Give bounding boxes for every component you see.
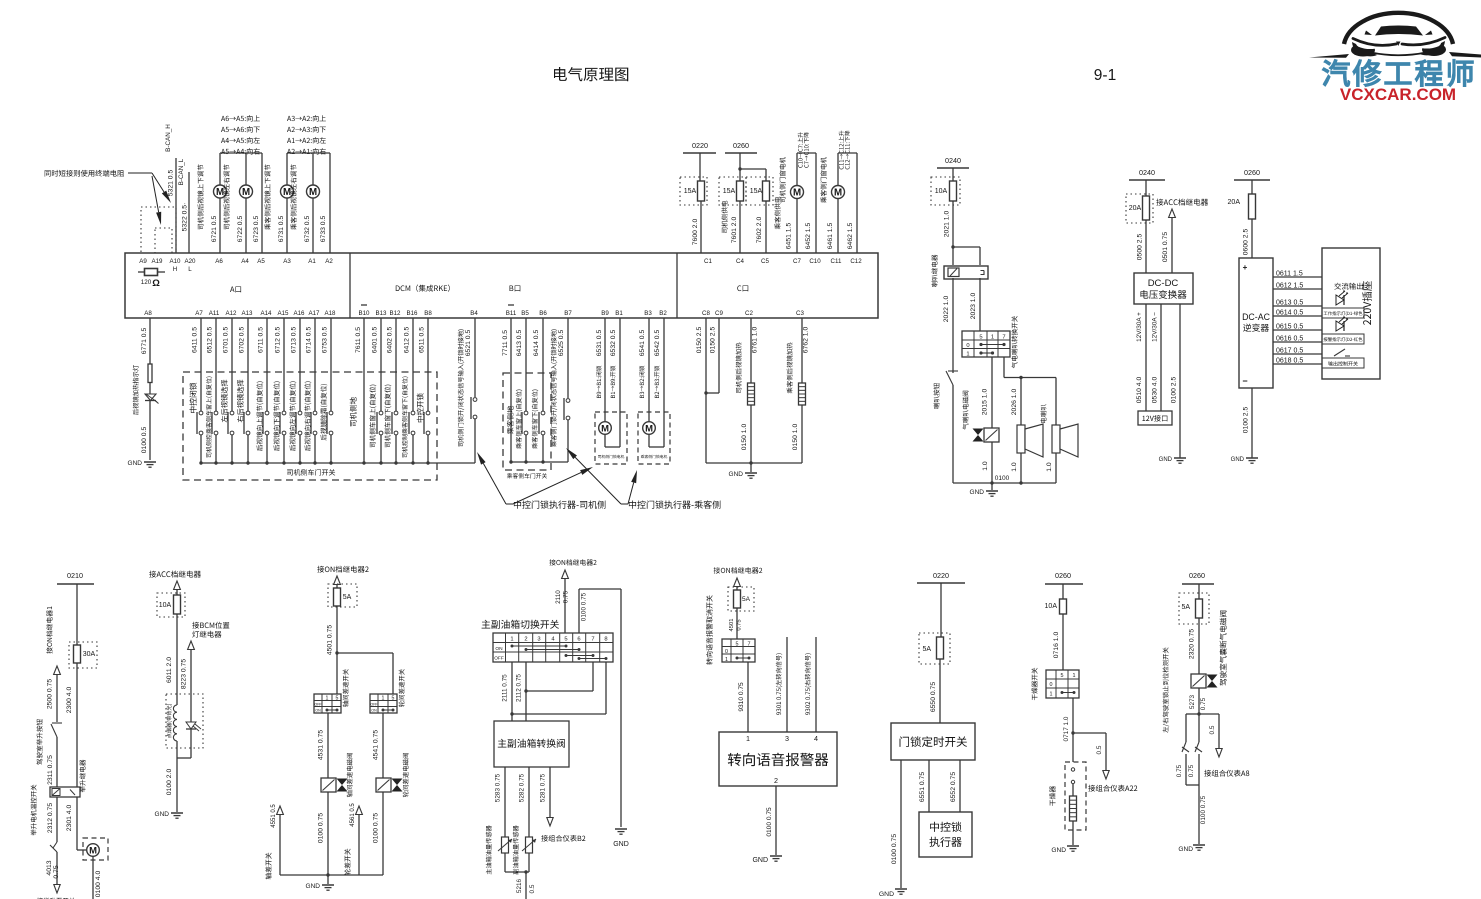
svg-text:2022 1.0: 2022 1.0	[943, 296, 950, 323]
svg-text:C2: C2	[745, 310, 753, 317]
wire 2023	[970, 278, 980, 331]
svg-text:A2: A2	[325, 258, 333, 265]
wire 0615	[1273, 324, 1322, 331]
solenoid 气喇叭电磁阀	[962, 391, 999, 442]
svg-text:6532 0.5: 6532 0.5	[610, 330, 617, 357]
wire below solenoid	[982, 442, 992, 483]
arrow to dotted box 2	[152, 176, 161, 225]
svg-text:GND: GND	[1231, 457, 1245, 463]
svg-text:A15: A15	[277, 310, 289, 317]
svg-text:B4: B4	[470, 310, 478, 317]
section label A口	[230, 286, 241, 292]
ground horn	[970, 489, 998, 496]
svg-text:GND: GND	[155, 811, 170, 818]
ground dcac	[1231, 457, 1258, 463]
svg-text:A6: A6	[215, 258, 223, 265]
svg-text:DC-DC: DC-DC	[1148, 278, 1179, 289]
wire 0150 below driver heater	[741, 405, 751, 463]
wire 6521 door-lock status driver	[458, 318, 477, 463]
wire 4013 to switch	[37, 860, 75, 899]
svg-text:7602 2.0: 7602 2.0	[756, 217, 763, 244]
svg-text:6753 0.5: 6753 0.5	[322, 327, 329, 354]
svg-text:6401 0.5: 6401 0.5	[372, 327, 379, 354]
wire 2111	[502, 662, 514, 721]
fuse 10A lamp	[157, 593, 185, 617]
svg-text:6761 1.0: 6761 1.0	[752, 327, 759, 354]
wire 2022	[943, 278, 953, 370]
svg-text:6451 1.5: 6451 1.5	[786, 223, 793, 250]
svg-text:GND: GND	[879, 891, 894, 898]
wire 6011	[166, 614, 177, 705]
svg-text:1.0: 1.0	[1046, 462, 1053, 472]
aux tank fuel sensor	[513, 825, 536, 874]
svg-text:0: 0	[725, 649, 728, 655]
svg-text:A19: A19	[151, 258, 163, 265]
svg-text:5322 0.5·: 5322 0.5·	[182, 203, 189, 232]
svg-text:6462 1.5: 6462 1.5	[847, 223, 854, 250]
svg-text:0.5: 0.5	[1096, 745, 1103, 754]
svg-text:C9: C9	[715, 310, 723, 317]
wire 0100 dcdc	[1171, 304, 1181, 458]
wire 6512	[206, 318, 218, 465]
svg-text:A3: A3	[283, 258, 291, 265]
svg-text:6714 0.5: 6714 0.5	[306, 327, 313, 354]
LED D2 red	[1322, 317, 1364, 344]
wire 6723	[253, 153, 262, 253]
svg-text:7601 2.0: 7601 2.0	[731, 217, 738, 244]
fuse 15A (0220)	[680, 177, 707, 205]
lift relay 举升继电器	[50, 760, 86, 797]
wire 0150 C9	[704, 318, 719, 395]
solenoid 轮间差速电磁阀	[376, 753, 409, 797]
fuse 5A lock timer	[919, 633, 950, 664]
svg-text:B2: B2	[659, 310, 667, 317]
section label DCM (集成RKE)	[396, 285, 450, 292]
svg-text:1.0: 1.0	[1011, 462, 1018, 472]
svg-text:7611 0.5: 7611 0.5	[355, 327, 362, 353]
note 中控门锁执行器-司机侧	[506, 500, 605, 508]
svg-text:0717 1.0: 0717 1.0	[1063, 716, 1070, 741]
driver mirror motor bracket	[220, 152, 262, 154]
wire 4551 轴差开关	[265, 804, 283, 880]
note 接ON档继电器2 (alarm)	[714, 567, 763, 573]
wire 7611 司机侧地	[350, 318, 366, 465]
svg-text:OFF: OFF	[314, 703, 322, 707]
svg-text:0.75: 0.75	[1176, 764, 1183, 777]
wire 6413	[516, 318, 528, 464]
svg-text:B16: B16	[406, 310, 418, 317]
svg-text:ON: ON	[371, 709, 377, 713]
bus 0260	[725, 141, 766, 181]
motor central lock passenger	[643, 422, 664, 447]
fuse 10A horn	[931, 177, 960, 205]
svg-text:A14: A14	[260, 310, 272, 317]
bus 0210	[57, 571, 94, 645]
svg-text:0612 1.5: 0612 1.5	[1276, 283, 1303, 290]
motor central lock driver	[599, 422, 620, 447]
wire 5273	[1189, 688, 1207, 716]
wire 0100 under wheel solenoid	[373, 792, 384, 875]
svg-text:20A: 20A	[1228, 199, 1241, 206]
fuse 5A alarm	[728, 578, 754, 611]
svg-text:ON: ON	[315, 709, 321, 713]
svg-text:6402 0.5: 6402 0.5	[387, 327, 394, 354]
wire 6411	[189, 318, 203, 465]
wire 4531	[318, 713, 329, 778]
lift motor dashed box	[83, 838, 108, 860]
wire 2112	[516, 662, 528, 721]
alarm cancel switch box	[722, 639, 755, 663]
logo VCXCAR car emblem	[1309, 13, 1481, 58]
wire 6761 mirror heater driver	[736, 318, 759, 393]
fuse 15A (7601)	[719, 177, 746, 205]
svg-text:A20: A20	[184, 258, 196, 265]
svg-text:5A: 5A	[1181, 604, 1190, 611]
dryer switch box 干燥器开关	[1031, 668, 1079, 700]
wire 6402	[384, 318, 398, 465]
dryer dashed box 干燥器	[1049, 762, 1086, 830]
svg-text:6712 0.5: 6712 0.5	[275, 327, 282, 354]
svg-text:8223 0.75: 8223 0.75	[181, 659, 188, 689]
svg-text:B5: B5	[521, 310, 529, 317]
bus 0220 lock timer	[917, 571, 965, 637]
driver lock motor dashed box	[595, 412, 627, 464]
svg-text:A17: A17	[308, 310, 320, 317]
heater driver mirror	[748, 383, 755, 405]
svg-text:6011 2.0: 6011 2.0	[166, 657, 173, 683]
svg-text:M: M	[793, 188, 801, 199]
svg-text:4531 0.75: 4531 0.75	[318, 730, 325, 760]
wire 6542	[654, 318, 664, 447]
wire 6551	[919, 760, 929, 812]
svg-text:15A: 15A	[750, 188, 763, 195]
svg-text:GND: GND	[1051, 847, 1066, 854]
svg-text:VCXCAR.COM: VCXCAR.COM	[1340, 85, 1456, 104]
svg-text:1: 1	[326, 696, 329, 702]
fuse 20A dcac	[1228, 194, 1256, 219]
DCM module box	[125, 253, 878, 318]
svg-text:0100 0.75: 0100 0.75	[373, 813, 380, 843]
lighter heating coil	[173, 705, 177, 758]
wire 6771	[133, 318, 150, 415]
svg-text:6771 0.5: 6771 0.5	[141, 328, 148, 355]
wire 6531	[596, 318, 605, 421]
cab lift button 驾驶室举升按钮	[36, 719, 62, 787]
fuel changeover valve 主副油箱转换阀	[494, 721, 569, 767]
wire 0.5 to cluster A22	[1073, 733, 1137, 792]
svg-text:2301 4.0: 2301 4.0	[66, 805, 73, 832]
cancel switch label 转向语音报警取消开关	[706, 595, 713, 664]
door lock timing switch box 门锁定时开关	[891, 723, 975, 760]
svg-text:1: 1	[510, 637, 513, 643]
note mirror directions A6/A5	[221, 115, 260, 154]
svg-text:5: 5	[564, 637, 567, 643]
wire 6732	[290, 153, 313, 253]
220V outlet box 220V插座	[1322, 248, 1380, 379]
svg-text:2: 2	[524, 637, 527, 643]
svg-text:6732 0.5: 6732 0.5	[304, 216, 311, 243]
svg-text:7711 0.5: 7711 0.5	[502, 330, 509, 356]
wire 6762 mirror heater passenger	[787, 318, 810, 393]
svg-text:A8: A8	[144, 310, 152, 317]
svg-text:2023 1.0: 2023 1.0	[970, 293, 977, 320]
svg-text:0.5: 0.5	[529, 884, 536, 893]
wire 0617	[1273, 348, 1322, 355]
note 接ACC档继电器 (lamp)	[149, 571, 201, 578]
svg-text:B11: B11	[506, 310, 517, 317]
wire 6525 door-lock status passenger	[551, 318, 570, 462]
svg-text:1: 1	[725, 657, 728, 663]
svg-text:15A: 15A	[723, 188, 736, 195]
svg-text:B1: B1	[615, 310, 623, 317]
svg-text:GND: GND	[1159, 457, 1173, 463]
lock detect switches 左/右驾驶室锁止到位检测开关	[1163, 647, 1202, 785]
svg-text:6733 0.5: 6733 0.5	[320, 216, 327, 243]
wire 0618	[1273, 358, 1322, 365]
svg-text:6461 1.5: 6461 1.5	[827, 223, 834, 250]
main tank fuel sensor	[486, 825, 512, 874]
svg-text:0616 0.5: 0616 0.5	[1276, 336, 1303, 343]
svg-text:B7: B7	[564, 310, 572, 317]
svg-text:9-1: 9-1	[1094, 67, 1116, 84]
svg-text:5: 5	[392, 696, 395, 702]
svg-text:5: 5	[1061, 673, 1064, 679]
wire 0100 0.5	[141, 427, 148, 454]
svg-text:0100 4.0: 0100 4.0	[95, 871, 102, 898]
svg-text:M: M	[309, 187, 317, 198]
wire 0100 fuel top	[579, 589, 621, 827]
logo text 汽修工程师	[1323, 60, 1474, 87]
svg-text:0: 0	[966, 343, 969, 349]
bus 0260 dryer	[1045, 571, 1083, 599]
LED D1 green	[1322, 291, 1364, 318]
svg-text:3: 3	[537, 637, 540, 643]
wire 0100 4.0 lift	[95, 871, 102, 898]
heater ground bus	[706, 461, 802, 472]
arrow to dotted box 1	[152, 173, 171, 203]
electric horn 2	[1046, 378, 1078, 484]
passenger door switch dashed box 乘客侧车门开关	[503, 373, 551, 478]
svg-text:0100 0.75: 0100 0.75	[766, 807, 773, 837]
svg-text:5A: 5A	[742, 596, 751, 603]
svg-text:0100 0.75: 0100 0.75	[891, 834, 898, 864]
svg-text:2312 0.75: 2312 0.75	[47, 803, 54, 833]
wire 6712	[273, 318, 286, 465]
svg-text:2110: 2110	[555, 590, 562, 604]
arrow to driver lock motor	[513, 467, 593, 504]
wire 6550	[930, 659, 940, 723]
svg-text:A10: A10	[169, 258, 181, 265]
svg-text:B-CAN_L: B-CAN_L	[178, 158, 185, 185]
svg-text:B12: B12	[389, 310, 401, 317]
svg-text:OFF: OFF	[370, 703, 378, 707]
svg-text:0530 4.0: 0530 4.0	[1152, 377, 1159, 404]
wire 7711 乘客侧地	[502, 318, 514, 464]
passenger switch common bus	[511, 461, 568, 463]
svg-text:6412 0.5: 6412 0.5	[404, 327, 411, 354]
motor mirror passenger left-right	[307, 185, 320, 198]
svg-text:B9: B9	[601, 310, 609, 317]
wire 6462	[847, 223, 854, 250]
svg-text:0220: 0220	[933, 571, 949, 580]
svg-text:0100 0.75: 0100 0.75	[581, 592, 588, 621]
svg-text:0260: 0260	[1189, 571, 1205, 580]
svg-text:2: 2	[774, 776, 778, 785]
ground dcdc	[1159, 457, 1186, 463]
svg-text:0150 2.5: 0150 2.5	[710, 327, 717, 354]
note mirror directions A3/A2	[287, 115, 326, 154]
wire 0.5 to cluster A8	[1199, 714, 1249, 777]
wire 5283	[495, 767, 506, 837]
svg-text:0260: 0260	[733, 141, 749, 150]
svg-text:2111 0.75: 2111 0.75	[502, 674, 509, 702]
wire 5282	[519, 767, 530, 837]
svg-text:1: 1	[966, 352, 969, 358]
svg-text:0.75: 0.75	[737, 619, 743, 630]
svg-text:20A: 20A	[1129, 205, 1142, 212]
svg-text:12V/30A −: 12V/30A −	[1152, 312, 1159, 342]
horn button 喇叭按钮	[933, 370, 958, 483]
svg-text:6552 0.75: 6552 0.75	[950, 772, 957, 802]
wire 6451	[786, 223, 793, 250]
svg-text:0.75: 0.75	[1200, 697, 1207, 710]
svg-text:A1: A1	[308, 258, 316, 265]
wire 5281 to cluster B2	[540, 767, 586, 842]
svg-text:0240: 0240	[945, 156, 961, 165]
backlight LED	[186, 722, 201, 731]
svg-text:6702 0.5: 6702 0.5	[239, 327, 246, 354]
svg-text:7: 7	[748, 642, 751, 648]
note 中控门锁执行器-乘客侧	[621, 500, 720, 508]
svg-text:0: 0	[1050, 682, 1053, 688]
svg-text:1.0: 1.0	[982, 461, 989, 471]
svg-text:7: 7	[591, 637, 594, 643]
svg-text:C4: C4	[736, 258, 744, 265]
note 同时短接则使用终端电阻	[45, 170, 152, 177]
ground A8 column	[128, 460, 156, 467]
svg-text:4501: 4501	[729, 619, 735, 632]
wire 9301 left turn signal	[776, 637, 787, 732]
svg-text:0.75: 0.75	[53, 865, 60, 878]
wire 0150 C8	[696, 318, 706, 463]
svg-text:M: M	[283, 187, 291, 198]
dryer heater	[1070, 796, 1077, 845]
wire 4561 轮差开关	[344, 803, 362, 876]
svg-text:1: 1	[382, 696, 385, 702]
wire 7601 司机侧供电	[721, 201, 740, 253]
svg-text:6541 0.5: 6541 0.5	[639, 330, 646, 357]
svg-text:0613 0.5: 0613 0.5	[1276, 300, 1303, 307]
svg-text:6723 0.5: 6723 0.5	[253, 216, 260, 243]
svg-text:4013: 4013	[46, 860, 53, 875]
DCM top pin labels	[139, 258, 862, 273]
title 电气原理图	[554, 67, 628, 81]
wire 2500 from ON relay 1	[47, 666, 61, 722]
svg-text:120: 120	[141, 279, 152, 286]
wire 4541	[373, 713, 384, 778]
svg-text:B10: B10	[358, 310, 370, 317]
12V socket box	[1138, 411, 1172, 425]
ground diff	[306, 883, 334, 890]
wire 5322 B-CAN_L	[178, 158, 189, 253]
svg-text:6511 0.5: 6511 0.5	[419, 327, 426, 353]
cigarette lighter dotted box 点烟器(带背光)	[166, 694, 203, 748]
svg-text:C7: C7	[793, 258, 801, 265]
svg-text:6521 0.5: 6521 0.5	[465, 330, 472, 357]
wire 2300	[66, 663, 77, 787]
svg-text:5273: 5273	[1189, 694, 1196, 709]
svg-text:0716 1.0: 0716 1.0	[1053, 632, 1060, 659]
svg-text:L: L	[188, 266, 192, 273]
wire 0600	[1243, 219, 1253, 258]
ground lamp	[155, 811, 183, 818]
svg-text:2311 0.75: 2311 0.75	[47, 755, 54, 785]
wire pin7 to 2112	[526, 662, 593, 691]
svg-text:8: 8	[604, 637, 607, 643]
bus 0260 dcac	[1234, 168, 1270, 194]
svg-text:ON: ON	[495, 646, 503, 652]
wire 6414	[532, 318, 545, 464]
arrow to passenger lock motor	[628, 470, 637, 504]
svg-text:OFF: OFF	[494, 656, 504, 662]
svg-text:6551 0.75: 6551 0.75	[919, 772, 926, 802]
solenoid 轴间差速电磁阀	[321, 753, 353, 797]
svg-text:GND: GND	[613, 841, 629, 848]
svg-text:6525 0.5: 6525 0.5	[558, 330, 565, 357]
note 接ON档继电器2 (fuel)	[549, 559, 596, 565]
wire 6713	[289, 318, 302, 465]
wire 2015	[982, 357, 993, 428]
wire 6541	[639, 318, 649, 421]
wire 2312	[47, 797, 57, 842]
svg-text:+: +	[1243, 263, 1248, 272]
motor lift	[87, 844, 100, 899]
resistor 120Ω	[138, 269, 165, 290]
svg-text:0500 2.5: 0500 2.5	[1137, 234, 1144, 261]
svg-text:M: M	[89, 845, 97, 856]
ground lock timer	[879, 889, 907, 898]
svg-text:0.5: 0.5	[1209, 725, 1216, 734]
svg-text:1: 1	[746, 734, 750, 743]
wire 0717	[1063, 698, 1075, 762]
svg-text:6414 0.5: 6414 0.5	[533, 330, 540, 357]
svg-text:6512 0.5: 6512 0.5	[207, 327, 214, 354]
wire 6731	[264, 153, 287, 253]
note 接ON档继电器2 (diff)	[317, 566, 368, 573]
svg-text:0220: 0220	[692, 141, 708, 150]
svg-text:2320 0.75: 2320 0.75	[1189, 629, 1196, 659]
wire 6721	[197, 153, 220, 253]
arrow to B4 contact	[477, 452, 506, 504]
wire 0716	[1053, 614, 1063, 670]
driver switch common bus	[201, 462, 475, 464]
dotted box terminal resistor 1	[141, 207, 176, 253]
svg-text:6531 0.5: 6531 0.5	[596, 330, 603, 357]
svg-text:B13: B13	[375, 310, 387, 317]
wire pin8 to 2111	[512, 662, 606, 714]
passenger window motor	[820, 131, 857, 253]
svg-text:1: 1	[1050, 692, 1053, 698]
svg-text:M: M	[834, 188, 842, 199]
passenger mirror motor bracket	[287, 152, 330, 154]
svg-text:2112 0.75: 2112 0.75	[516, 674, 523, 702]
svg-text:3: 3	[785, 734, 789, 743]
page number 9-1	[1094, 67, 1116, 84]
svg-text:A18: A18	[324, 310, 336, 317]
wire 0510	[1136, 304, 1146, 411]
svg-text:A7: A7	[195, 310, 203, 317]
solenoid 驾驶室气囊断气电磁阀	[1191, 611, 1227, 688]
